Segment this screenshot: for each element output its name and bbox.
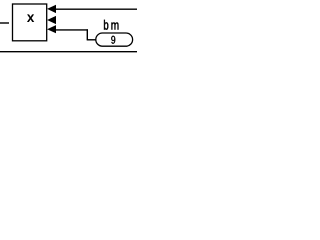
label x xyxy=(27,15,33,22)
product block U1 xyxy=(13,4,47,41)
label bm : b xyxy=(104,20,108,30)
wire 2 vertical xyxy=(86,29,88,40)
input port arrow 1 xyxy=(47,5,56,13)
port number 9 xyxy=(111,36,115,44)
wire 1 xyxy=(55,8,137,10)
wire 2 horizontal xyxy=(55,29,88,31)
output wire stub xyxy=(0,22,9,24)
label bm : m xyxy=(111,23,118,30)
inport oval P9 xyxy=(96,33,133,46)
input port arrow 2 (unconnected) xyxy=(47,16,56,24)
wire 2 into inport xyxy=(87,39,97,41)
bottom border line xyxy=(0,51,137,53)
input port arrow 3 xyxy=(47,25,56,33)
background xyxy=(0,0,137,58)
